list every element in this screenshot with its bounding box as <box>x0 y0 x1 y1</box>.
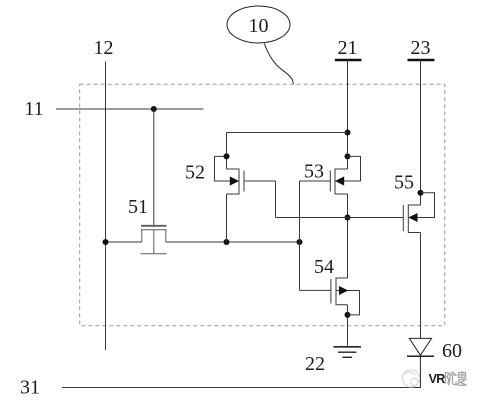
svg-text:21: 21 <box>338 37 358 59</box>
transistor 52 <box>215 133 276 243</box>
svg-text:22: 22 <box>305 353 325 375</box>
junction of main net on line 12 <box>103 239 109 245</box>
junction above ground <box>345 312 351 318</box>
svg-text:VR: VR <box>429 372 446 386</box>
watermark glyph tuo <box>446 372 457 386</box>
junction 52 drain/loop <box>224 153 230 159</box>
svg-text:23: 23 <box>411 37 431 59</box>
junction 21/top wire <box>345 130 351 136</box>
svg-text:60: 60 <box>442 340 462 362</box>
transistor 55 <box>403 193 434 233</box>
wire line 31 (bottom horizontal) <box>62 387 421 389</box>
transistor 51 <box>141 226 167 254</box>
wire mid bus (52 gate to 55 gate) <box>276 217 404 219</box>
watermark glyph luo <box>457 371 467 385</box>
svg-text:52: 52 <box>185 162 205 184</box>
wire main horizontal net (51 to gate column) <box>166 241 300 243</box>
bubble callout 10 (ellipse) <box>227 6 290 43</box>
transistor 54 <box>300 278 360 315</box>
watermark logo <box>402 370 419 387</box>
svg-text:10: 10 <box>249 15 269 37</box>
wire gate net of 52 down to mid bus <box>275 181 277 218</box>
supply terminal 23 (bar) <box>408 59 435 62</box>
transistor 53 <box>300 156 361 194</box>
svg-text:31: 31 <box>20 377 40 399</box>
wire main horizontal net (left part, line12 to 51) <box>106 241 142 243</box>
wire top horizontal (52 drain to line 21) <box>227 132 348 134</box>
leader squiggle from bubble 10 to block <box>264 44 293 85</box>
svg-text:11: 11 <box>24 98 43 120</box>
wire line 21 vertical (53 source to 54 drain) <box>347 194 349 278</box>
ground 22 <box>334 347 362 358</box>
wire line 23 vertical (55 source to diode 60) <box>420 233 422 339</box>
svg-text:12: 12 <box>94 37 114 59</box>
junction on line 11 (gate of 51) <box>151 106 157 112</box>
wire line 23 vertical (top to 55 drain) <box>420 60 422 205</box>
svg-text:53: 53 <box>304 161 324 183</box>
svg-text:54: 54 <box>314 256 334 278</box>
diode 60 <box>407 338 434 387</box>
wire line 11 (horizontal) <box>56 108 204 110</box>
junction of main net at source of 52 <box>224 239 230 245</box>
wire line 12 (vertical) <box>105 62 107 351</box>
junction 21/53 drain loop <box>345 153 351 159</box>
wire from line 11 junction down to gate of 51 <box>153 109 155 225</box>
svg-text:51: 51 <box>128 196 148 218</box>
wire line 21 vertical (54 source to ground) <box>347 305 349 346</box>
dashed block boundary <box>80 84 445 326</box>
wire line 21 vertical (top to 53 drain) <box>347 60 349 169</box>
junction 21/gate net of 52-55 <box>345 215 351 221</box>
wire gate column 53/54 <box>299 181 301 290</box>
junction of main net at gate column of 53/54 <box>297 239 303 245</box>
junction 23/55 drain loop <box>418 190 424 196</box>
supply terminal 21 (bar) <box>335 59 362 62</box>
svg-text:55: 55 <box>394 172 414 194</box>
